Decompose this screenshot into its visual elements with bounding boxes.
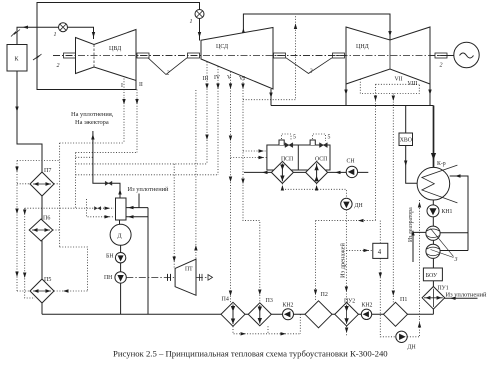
svg-text:КН1: КН1	[442, 209, 453, 215]
wire drain riser x=87.5	[60, 247, 88, 291]
wire DN1 discharge	[345, 210, 347, 221]
boiler K	[7, 45, 27, 72]
arrow down PT steam	[173, 257, 176, 263]
svg-text:Рисунок 2.5 – Принципиальная т: Рисунок 2.5 – Принципиальная тепловая сх…	[113, 349, 388, 359]
arrow left main steam near boiler	[23, 26, 29, 29]
svg-text:СН: СН	[347, 159, 356, 165]
wire extraction III x=207	[206, 62, 208, 164]
arrow left circ water	[455, 174, 461, 177]
svg-text:II: II	[139, 82, 143, 88]
svg-text:ДН: ДН	[408, 345, 417, 351]
pump DN2	[396, 331, 417, 350]
wire PSP inlet y=151	[243, 150, 267, 152]
gland heater PU2	[335, 299, 359, 327]
svg-text:ПН: ПН	[104, 275, 113, 281]
box BOU	[423, 268, 442, 281]
wire OSP drain x=316.6	[316, 183, 318, 189]
svg-text:На эжектора: На эжектора	[75, 119, 109, 126]
ejector 2	[426, 244, 440, 258]
arrow down into CSD	[198, 32, 201, 38]
arrows riser x=418.2	[418, 202, 421, 208]
valve on dotted deaerator line	[94, 206, 110, 218]
break symbol on boiler line	[11, 30, 20, 37]
shaft coupling CSD-CND left	[274, 53, 286, 58]
wire deaerator stack top	[93, 131, 120, 198]
wire BN-PN	[120, 263, 122, 272]
wire turbine-drive steam x=174.2	[173, 164, 175, 268]
svg-text:ПТ: ПТ	[185, 267, 193, 273]
pump SN	[346, 159, 357, 178]
arrows into deaerator	[128, 206, 134, 209]
wire ejector cooling bottom	[440, 250, 468, 252]
arrows P4 P3 drains right	[241, 332, 247, 335]
PSP actuator	[279, 140, 284, 145]
svg-text:ЦНД: ЦНД	[356, 44, 369, 50]
label 3 with leaders	[431, 229, 458, 264]
svg-text:ХВО: ХВО	[400, 138, 412, 144]
wire left riser x=17	[16, 161, 18, 292]
wire deaerator-D	[119, 219, 121, 224]
PSP valve	[285, 143, 293, 148]
pump KN2 a	[283, 303, 294, 320]
pump KN1	[427, 205, 453, 217]
heater P7	[30, 168, 54, 196]
arrow left iz uplotneniy	[450, 297, 456, 300]
wire main condensate line y=314.3	[42, 313, 433, 315]
svg-text:2: 2	[310, 69, 313, 75]
arrow down V	[229, 84, 232, 90]
wire extraction V x=230.5 to P4	[230, 72, 232, 303]
arrow up PT exhaust	[194, 245, 197, 251]
turbine CSD	[201, 28, 273, 90]
wire ejector cooling top	[440, 232, 468, 234]
svg-text:На уплотнения,: На уплотнения,	[71, 111, 114, 118]
svg-text:Из уплотнений: Из уплотнений	[128, 186, 170, 193]
svg-text:Из уплотнений: Из уплотнений	[446, 292, 488, 299]
svg-text:1: 1	[54, 32, 57, 38]
svg-text:КН2: КН2	[283, 303, 294, 309]
arrow down feed to P7	[15, 107, 18, 113]
wire KN1 to ejector1	[432, 217, 434, 226]
valve 1 reheat	[190, 10, 205, 26]
arrow down VI	[241, 84, 244, 90]
pump PN	[104, 272, 126, 283]
wire extraction VIII x=393.3	[392, 94, 394, 303]
wire CSD exhaust drop	[270, 89, 272, 106]
heater P2	[305, 292, 332, 328]
arrow down extraction II	[135, 99, 138, 105]
svg-text:Из дренажей: Из дренажей	[340, 243, 347, 278]
wire CND left exhaust	[345, 84, 347, 106]
heater P3	[248, 298, 273, 326]
wire P5 to main line	[41, 303, 43, 314]
svg-text:I: I	[121, 83, 123, 89]
wire crossover CSD to CND	[243, 14, 390, 40]
box 4	[373, 243, 388, 258]
svg-text:БОУ: БОУ	[426, 273, 438, 279]
shaft coupling CVD-CSD left	[137, 53, 149, 58]
wire deaerator dotted line y=216.8	[87, 199, 115, 217]
box HVO	[399, 133, 413, 146]
wire cold reheat bottom y=89.5	[37, 3, 200, 90]
svg-text:П2: П2	[321, 292, 328, 298]
wire iz uplotneniy to PU1	[444, 297, 478, 299]
arrow up deaerator steam	[118, 189, 121, 195]
svg-text:КН2: КН2	[362, 303, 373, 309]
wire L1 drop x=75.5	[75, 153, 77, 209]
wire main exhaust to condenser (thick)	[433, 106, 435, 168]
heater P6	[29, 216, 53, 242]
wire LP dotted loop upper y=84.3	[376, 83, 420, 85]
wire to P5 y=291	[17, 290, 30, 292]
wire P7 left branch y=160.5	[17, 160, 60, 162]
deaerator column	[116, 198, 127, 220]
PSP/OSP housing	[267, 145, 330, 170]
wire iz drenazhey to PU2 x=346.4	[345, 221, 347, 303]
wire extraction VI x=243	[243, 77, 260, 303]
wire P7 steam drop x=59.6	[59, 143, 61, 247]
wire P4 to deaerator riser	[147, 208, 149, 315]
wire box4 bottom to DN2	[380, 258, 396, 336]
wire deaerator dotted bus y=208.2	[25, 207, 114, 209]
arrow up iz deaeratora	[411, 230, 414, 236]
pump KN2 b	[361, 303, 372, 320]
arrow down main exhaust	[431, 153, 436, 160]
arrow down HVO	[404, 161, 407, 167]
svg-text:2: 2	[440, 63, 443, 69]
svg-text:1: 1	[190, 19, 193, 25]
wire P3 drain stub	[267, 326, 269, 334]
generator G	[441, 42, 479, 67]
arrow left drain bus	[358, 219, 364, 222]
wire P5 drain y=291	[54, 290, 88, 292]
shaft coupling CSD-CND right	[333, 53, 345, 58]
wire PU2 drain	[346, 326, 348, 337]
wire P4 drain	[233, 326, 300, 334]
wire turbine-drive exhaust x=195.9	[195, 90, 197, 259]
valve 1 main steam	[54, 23, 68, 38]
arrow up na uplotneniya	[91, 134, 94, 140]
wire ejector1-ejector2	[432, 240, 434, 244]
svg-text:VII: VII	[395, 77, 403, 83]
wire main steam: K to CVD	[17, 27, 94, 44]
svg-text:VIII: VIII	[408, 81, 418, 87]
wire deaerator inlet arrows	[124, 207, 148, 209]
svg-text:Д: Д	[118, 234, 122, 240]
wire dotted bus L2 y=157.3	[76, 156, 94, 158]
wire extraction I vertical x=124	[123, 79, 125, 144]
shaft coupling K-CVD	[64, 53, 76, 58]
wire PSP inlet y=157.5	[231, 157, 267, 159]
heater P1	[384, 297, 408, 326]
arrow down VIII, down to P1	[392, 96, 395, 102]
wire box4 inlet y=250.4	[346, 249, 372, 251]
svg-text:К-р: К-р	[437, 161, 446, 167]
svg-text:ЦВД: ЦВД	[109, 46, 121, 52]
arrow down extraction I	[122, 99, 125, 105]
arrow left P5 drain	[63, 289, 69, 292]
wire D-BN	[120, 245, 122, 252]
svg-text:2: 2	[167, 71, 170, 77]
wire PU1 to main line	[432, 309, 434, 314]
wire dotted bus L1 y=152.4	[76, 152, 138, 154]
turbine CND	[346, 27, 430, 84]
turbine drive PT	[126, 259, 212, 295]
svg-text:2: 2	[57, 63, 60, 69]
svg-text:П7: П7	[44, 168, 51, 174]
wire extraction VII x=375.5	[375, 84, 377, 220]
svg-text:5: 5	[293, 135, 296, 141]
wire ejector2 to BOU	[432, 258, 434, 268]
wire LP dotted loop lower y=93.5	[360, 79, 419, 94]
wire P7 left inlet stub	[17, 183, 30, 185]
drain V pipe CSD-CND	[286, 58, 332, 74]
arrows left column	[15, 167, 18, 173]
arrow down VII	[374, 96, 377, 102]
arrow right box4 inlet	[364, 249, 370, 252]
arrow down P2 steam	[314, 290, 317, 296]
wire HVO to condenser	[406, 146, 418, 184]
wire HP heater string x=42	[41, 196, 43, 303]
break symbol on reheat riser	[33, 54, 42, 60]
heater P4	[221, 297, 245, 327]
arrow down III	[205, 84, 208, 90]
wire extraction I bus y=143	[60, 142, 124, 144]
svg-text:3: 3	[454, 257, 458, 263]
wire circulating water inlet	[450, 176, 468, 251]
condenser K-r	[417, 161, 457, 203]
wire dotted bus L4 y=174.8	[76, 174, 219, 176]
svg-text:ДН: ДН	[355, 203, 364, 209]
wire P6 drain stub	[53, 229, 60, 231]
shaft coupling CVD-CSD right	[188, 53, 200, 58]
wire hot reheat into CSD	[199, 18, 201, 41]
wire HVO top	[405, 106, 407, 134]
heater OSP diamond	[306, 161, 328, 183]
wire DN2 discharge	[407, 336, 419, 338]
wire shaft centerline over turbines	[53, 55, 454, 57]
wire BOU to PU1	[432, 281, 434, 287]
wire CND right exhaust	[429, 84, 431, 106]
wire left riser x=24.7	[25, 208, 35, 298]
arrows heater drains up	[281, 185, 284, 191]
wire dotted bus L3 y=163.9	[76, 163, 208, 165]
wire iz deaeratora to ejector1	[413, 232, 428, 262]
wire heater-drain bus y=189.3	[282, 189, 346, 198]
svg-text:П5: П5	[44, 277, 51, 283]
wire shaft dash-dot	[53, 55, 454, 57]
wire P7 right stub	[54, 183, 60, 185]
svg-text:ЦСД: ЦСД	[216, 44, 228, 50]
deaerator tank D	[110, 224, 131, 245]
arrow left network water 2	[335, 171, 341, 174]
wire feed to boiler	[17, 71, 42, 172]
gland heater PU1	[422, 286, 449, 310]
wire drain riser x=418.2	[419, 200, 421, 337]
wire PSP valve bracket 1	[282, 134, 292, 141]
svg-text:Из деаэратора: Из деаэратора	[408, 207, 414, 242]
svg-text:ПУ2: ПУ2	[344, 299, 355, 305]
wire PSP drain x=282.4	[281, 183, 283, 189]
shaft coupling CND-generator	[435, 53, 447, 58]
svg-text:П4: П4	[222, 297, 229, 303]
svg-text:5: 5	[328, 135, 331, 141]
OSP valve	[320, 143, 328, 148]
OSP actuator	[310, 140, 315, 145]
wire network water line y=172.4	[244, 171, 368, 173]
wire extraction II vertical x=137	[136, 90, 138, 153]
svg-text:БН: БН	[106, 254, 114, 260]
svg-text:4: 4	[378, 249, 382, 256]
arrow down IV	[216, 84, 219, 90]
svg-text:VI: VI	[239, 76, 245, 82]
drain V pipe CVD-CSD	[148, 58, 187, 75]
arrow down into CVD	[92, 32, 95, 38]
svg-text:П6: П6	[43, 216, 50, 222]
arrow down box4 out	[379, 273, 382, 279]
wire crossover tap x=292	[243, 16, 296, 100]
valve on deaerator steam line	[105, 181, 112, 185]
wire box4 top x=380.3	[379, 221, 381, 244]
pump BN	[106, 253, 126, 263]
arrow down iz drenazhey	[345, 287, 348, 293]
arrows CND exhausts	[269, 93, 272, 99]
heater PSP diamond	[271, 161, 293, 183]
wire extraction IV x=218	[217, 66, 219, 174]
ejector 1	[426, 226, 440, 240]
arrow up crossover tap	[294, 24, 297, 30]
svg-text:III: III	[203, 76, 209, 82]
wire P2 steam drop x=315.5	[315, 221, 317, 300]
wire condenser to KN1	[432, 200, 434, 205]
wire PN down	[120, 283, 122, 314]
turbine CVD	[76, 30, 137, 81]
wire drain riser x=300.3	[299, 314, 301, 334]
arrows PSP inlets	[259, 149, 265, 152]
wire exhaust header y=105.5	[271, 105, 434, 107]
svg-text:IV: IV	[214, 75, 221, 81]
arrow left network water	[262, 171, 268, 174]
pump DN1	[341, 198, 364, 209]
heater P5	[30, 277, 54, 303]
arrow down crossover into CND	[388, 31, 391, 37]
wire drain bus y=220.6	[316, 220, 376, 222]
svg-text:П3: П3	[266, 298, 273, 304]
svg-text:П1: П1	[400, 297, 407, 303]
wire OSP valve bracket 2	[313, 134, 326, 141]
arrow up crossover	[242, 28, 245, 34]
